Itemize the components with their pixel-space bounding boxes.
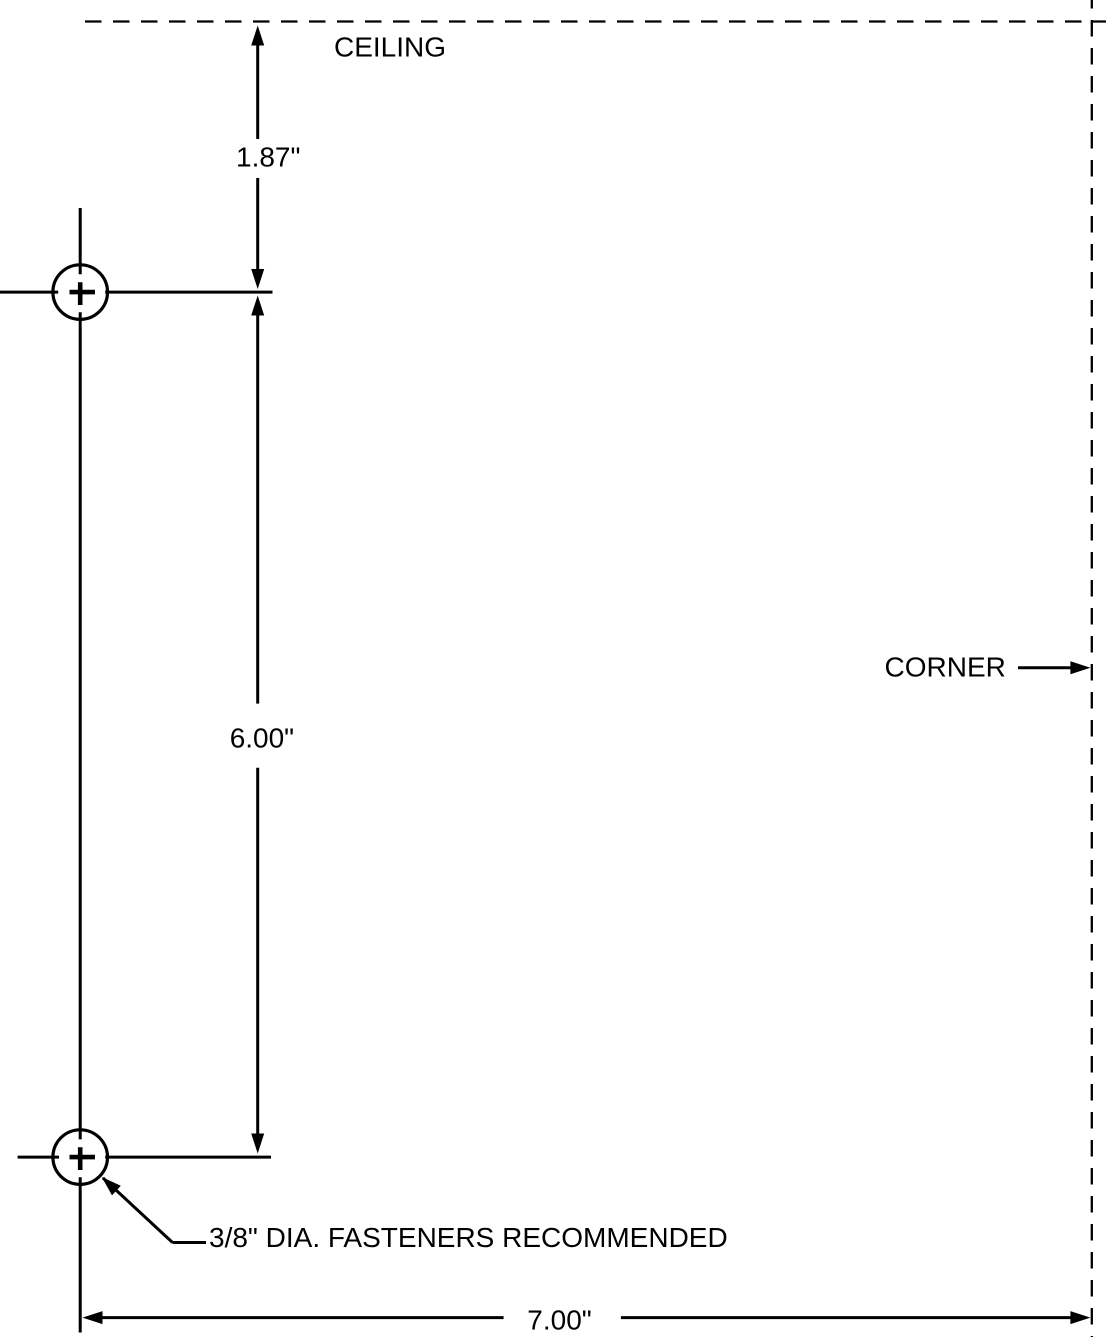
dimension 7.00" arrow left head [83, 1311, 103, 1324]
vertical centerline between holes [79, 312, 82, 1139]
dimension 6.00" arrow down head [251, 1134, 264, 1154]
corner pointer arrowhead [1070, 661, 1090, 674]
hole H2 vertical centerline lower segment [79, 1177, 82, 1332]
fastener leader arrowhead [102, 1177, 121, 1195]
dimension 1.87" lower shaft [256, 178, 259, 270]
dimension 7.00" arrow right head [1070, 1311, 1090, 1324]
svg-text:3/8" DIA. FASTENERS RECOMMENDE: 3/8" DIA. FASTENERS RECOMMENDED [209, 1222, 728, 1253]
hole H1 center plus [70, 282, 96, 305]
dimension 7.00" right shaft [621, 1316, 1072, 1319]
hole H1 horizontal centerline right segment [105, 291, 272, 294]
ceiling dashed line [85, 20, 1106, 22]
hole H2 horizontal centerline left segment [18, 1156, 59, 1159]
hole H1 vertical centerline upper segment [79, 208, 82, 274]
hole H2 center plus [70, 1147, 96, 1170]
fastener leader diagonal shaft [103, 1178, 173, 1243]
dimension 6.00" upper shaft [256, 315, 259, 704]
dimension 6.00" lower shaft [256, 768, 259, 1135]
fastener leader horizontal shaft [173, 1241, 207, 1244]
hole H2 horizontal centerline right segment [105, 1156, 271, 1159]
svg-text:7.00": 7.00" [527, 1305, 591, 1336]
hole H1 top fastener circle [53, 265, 108, 320]
corner pointer shaft [1018, 666, 1072, 669]
dimension 7.00" left shaft [101, 1316, 504, 1319]
hole H2 bottom fastener circle [53, 1130, 108, 1185]
dimension 1.87" arrow up head [251, 26, 264, 46]
dimension 1.87" arrow down head [251, 269, 264, 289]
dimension 1.87" upper shaft [256, 45, 259, 140]
hole H1 horizontal centerline left segment [0, 291, 58, 294]
dimension 6.00" arrow up head [251, 296, 264, 316]
svg-text:1.87": 1.87" [236, 142, 300, 173]
svg-text:CORNER: CORNER [885, 652, 1006, 683]
corner dashed line [1091, 0, 1093, 1337]
svg-text:6.00": 6.00" [230, 723, 294, 754]
svg-text:CEILING: CEILING [334, 32, 446, 63]
